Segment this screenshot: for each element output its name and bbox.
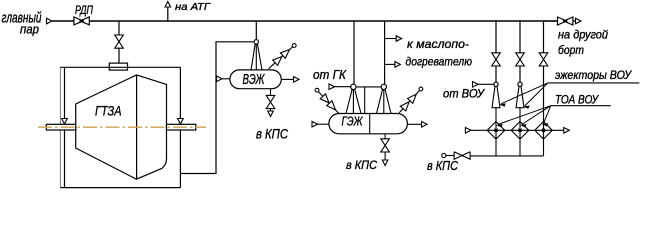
leaders to coolers — [498, 106, 551, 125]
box bottom edge — [60, 187, 180, 189]
wire riser — [180, 42, 254, 174]
svg-text:ТОА ВОУ: ТОА ВОУ — [555, 95, 599, 107]
steam chest rectangle — [109, 63, 127, 70]
wire below cooler 3 — [543, 139, 545, 156]
wire funnel2 to cooler — [519, 108, 521, 139]
drain arrow down — [268, 111, 274, 117]
wire funnel1 to cooler — [495, 108, 497, 139]
nozzle fan 1 — [346, 89, 361, 114]
output arrow — [281, 78, 294, 80]
svg-text:в КПС: в КПС — [427, 158, 459, 173]
end arrow — [576, 18, 582, 24]
nozzle fan — [251, 44, 262, 70]
wire vertical from main line to node 1 — [353, 21, 355, 84]
wire branch down — [118, 21, 120, 63]
input arrow — [312, 121, 318, 127]
drain wire — [270, 89, 272, 111]
cooler TOA 2 — [511, 122, 529, 140]
right shaft — [167, 124, 196, 130]
ejector node 1 — [494, 82, 498, 86]
svg-text:на другой: на другой — [558, 27, 608, 41]
cooler TOA 3 — [535, 122, 553, 140]
box top edge — [60, 66, 180, 68]
svg-text:ГТЗА: ГТЗА — [95, 103, 122, 119]
drain valve bottom — [454, 152, 470, 159]
svg-text:в КПС: в КПС — [346, 158, 377, 172]
drain valve — [266, 95, 275, 108]
leaders to ejectors — [501, 83, 548, 104]
branch k maslopodogrevatelyu upper — [385, 38, 398, 40]
wire below cooler 1 — [495, 139, 497, 156]
svg-text:к маслопо-: к маслопо- — [407, 37, 469, 51]
box left edge — [59, 67, 61, 187]
ejector funnel 2 — [516, 86, 524, 107]
cooler row line with arrows — [465, 128, 471, 134]
svg-text:ГЭЖ: ГЭЖ — [342, 114, 364, 129]
cooler TOA 1 — [487, 122, 505, 140]
left shaft — [46, 124, 75, 130]
wire to end valve — [544, 20, 558, 22]
wire drop from link — [364, 87, 366, 114]
wire main steam line left — [52, 20, 74, 22]
turbine middle line — [136, 75, 138, 179]
gland steam in diagonal left — [315, 88, 319, 92]
wire vertical from main line to node 2 — [384, 21, 386, 84]
drain valve — [381, 139, 390, 152]
gland steam in diagonal right — [419, 87, 423, 91]
input arrow — [217, 76, 223, 82]
drain wire — [384, 134, 386, 160]
svg-text:на АТГ: на АТГ — [175, 1, 211, 13]
bottom drain line — [470, 155, 543, 157]
capsule divider — [369, 114, 371, 134]
valve RDP — [74, 17, 89, 25]
shaft centerline — [38, 126, 206, 128]
wire main steam line — [89, 20, 543, 22]
svg-text:ВЭЖ: ВЭЖ — [243, 72, 265, 88]
wire column 3 — [543, 21, 545, 139]
left gland line — [64, 67, 66, 187]
svg-text:эжекторы ВОУ: эжекторы ВОУ — [555, 70, 633, 82]
svg-text:РДП: РДП — [75, 3, 93, 17]
output arrow — [407, 123, 423, 125]
svg-text:пар: пар — [20, 23, 39, 37]
wire up — [167, 6, 169, 21]
svg-text:от ВОУ: от ВОУ — [443, 86, 485, 100]
valve column 3 — [539, 53, 548, 66]
svg-text:от ГК: от ГК — [313, 67, 347, 82]
wire to circle end — [446, 155, 454, 157]
valve V1 — [115, 35, 124, 48]
VEZh capsule — [230, 70, 281, 89]
turbine hexagon — [76, 75, 167, 179]
valve column 2 — [516, 53, 525, 66]
GEZh capsule — [329, 114, 408, 134]
arrow up — [165, 2, 171, 8]
node circle — [254, 40, 258, 44]
svg-text:догревателю: догревателю — [406, 54, 473, 68]
nozzle fan 2 — [377, 89, 392, 114]
branch k maslopodogrevatelyu lower — [385, 63, 397, 65]
wire stub from main line — [255, 21, 257, 40]
input arrow to ejector node — [329, 84, 335, 90]
gland steam out diagonal — [269, 47, 293, 69]
node circle 2 — [381, 84, 386, 89]
valve end — [558, 17, 573, 25]
wire link between nodes — [356, 86, 382, 88]
svg-text:в КПС: в КПС — [256, 126, 288, 141]
wire column 2 — [519, 21, 521, 82]
drain arrow down — [382, 160, 388, 166]
node start arrow — [47, 18, 53, 24]
box right edge with gland arrow — [179, 67, 181, 187]
ot VOU arrow — [473, 82, 479, 88]
svg-text:борт: борт — [558, 43, 584, 57]
node circle 1 — [351, 84, 356, 89]
wire after valve — [573, 20, 577, 22]
circle terminal — [442, 153, 446, 157]
wire below cooler 2 — [519, 139, 521, 156]
valve column 1 — [492, 53, 501, 66]
ejector funnel 1 — [492, 86, 500, 107]
ejector node 2 — [518, 82, 522, 86]
wire column 1 — [495, 21, 497, 82]
